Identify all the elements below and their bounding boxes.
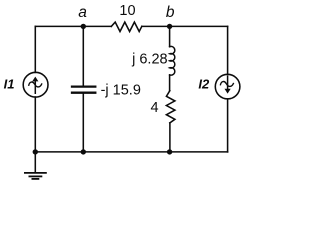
- wire bottom rail: [35, 151, 227, 153]
- ground bar 2: [29, 175, 41, 177]
- svg-text:j 6.28: j 6.28: [131, 51, 167, 67]
- node b junction dot: [167, 24, 172, 29]
- I1 arrow (up): [32, 77, 38, 94]
- wire top-left from corner to node a: [35, 25, 83, 27]
- svg-text:-j 15.9: -j 15.9: [101, 82, 141, 98]
- I1 sine tilde: [29, 82, 42, 87]
- ground bar 1: [25, 172, 46, 174]
- wire left branch top to I1: [34, 26, 36, 72]
- svg-text:a: a: [78, 4, 87, 21]
- inductor j 6.28 (4 loops): [170, 46, 175, 75]
- svg-text:I1: I1: [4, 76, 15, 91]
- junction dot bottom-left (ground): [33, 149, 38, 154]
- wire I1 bottom to bottom rail: [34, 97, 36, 152]
- wire inductor bottom to resistor R2 top: [169, 75, 171, 91]
- node a junction dot: [81, 24, 86, 29]
- wire node b down to inductor top: [169, 26, 171, 46]
- wire node a to resistor R1 left lead: [83, 25, 111, 27]
- wire resistor R2 bottom to bottom rail: [169, 123, 171, 152]
- current source I2 circle: [215, 74, 240, 99]
- svg-text:I2: I2: [198, 76, 210, 91]
- wire resistor R1 right lead to node b: [142, 25, 170, 27]
- wire node b to top-right corner: [170, 25, 228, 27]
- I2 sine tilde: [220, 82, 233, 87]
- ground bar 3: [32, 178, 38, 180]
- capacitor -j 15.9 bottom plate: [72, 92, 95, 94]
- resistor 10 (horizontal, between a and b): [111, 22, 142, 31]
- junction dot bottom inductor branch: [167, 149, 172, 154]
- svg-text:4: 4: [151, 100, 159, 116]
- wire capacitor bottom plate to bottom rail: [82, 94, 84, 152]
- resistor 4 (vertical): [166, 91, 175, 123]
- svg-text:10: 10: [119, 3, 135, 19]
- I2 arrow (down): [225, 75, 231, 93]
- wire node a down to capacitor top plate: [82, 26, 84, 85]
- junction dot bottom capacitor branch: [81, 149, 86, 154]
- current source I1 circle: [23, 72, 48, 97]
- wire right branch down to I2: [227, 26, 229, 74]
- wire I2 bottom to bottom-right corner: [227, 99, 229, 152]
- ground stem: [34, 152, 36, 172]
- svg-text:b: b: [166, 4, 175, 21]
- capacitor -j 15.9 top plate: [72, 85, 95, 87]
